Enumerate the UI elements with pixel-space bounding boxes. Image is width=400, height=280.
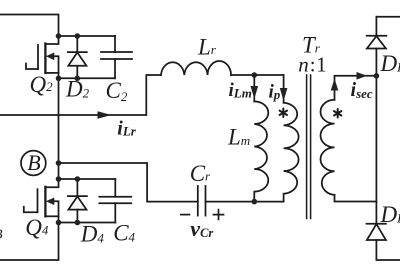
svg-text:Q4: Q4: [25, 215, 49, 240]
wire Q4 source rail: [59, 222, 116, 224]
node B junction: [56, 160, 62, 166]
svg-text:C4: C4: [113, 221, 135, 246]
capacitor Cr: [197, 186, 199, 216]
diode D2: [76, 36, 78, 52]
svg-text:n:1: n:1: [298, 53, 326, 77]
arrow isec right: [357, 72, 368, 80]
label plus: [213, 209, 225, 221]
wire Q4 drain branch: [58, 163, 60, 179]
wire top-left input rail: [0, 15, 59, 37]
wire node B to Cr: [59, 163, 198, 202]
node Q2 drain: [56, 33, 62, 39]
arrow Q4 body: [46, 198, 54, 206]
node D2 bottom: [75, 76, 81, 82]
transistor Q2: [46, 36, 59, 44]
capacitor C4: [114, 179, 116, 197]
wire Cr to primary bottom: [206, 201, 284, 203]
wire secondary bottom: [335, 195, 377, 202]
wire Q4 source to bottom rail: [0, 223, 59, 261]
svg-text:DR: DR: [380, 51, 400, 76]
transformer primary winding: [284, 103, 299, 202]
wire Q2 source rail: [59, 77, 116, 79]
arrow isec up: [331, 79, 339, 91]
node D4 top: [75, 176, 81, 182]
wire iLm branch: [253, 75, 255, 101]
wire DR2 to bottom-right rail: [376, 240, 400, 260]
arrow ip: [280, 88, 288, 101]
svg-text:isec: isec: [351, 79, 373, 101]
transformer core: [306, 75, 308, 219]
svg-text:vCr: vCr: [190, 216, 213, 241]
svg-text:D4: D4: [80, 222, 105, 247]
wire Lr to primary node: [231, 74, 284, 76]
svg-text:Q2: Q2: [30, 72, 54, 97]
transformer secondary winding: [320, 100, 334, 195]
arrow Q2 body: [46, 53, 54, 61]
wire secondary top / isec: [335, 76, 377, 100]
node Lm top junction: [252, 72, 258, 78]
node Q2 source: [56, 76, 62, 82]
diode D4: [76, 179, 78, 196]
capacitor C2: [114, 36, 116, 52]
diode DR2: [367, 223, 386, 225]
svg-text:ip: ip: [269, 81, 281, 102]
inductor Lm: [254, 101, 268, 201]
node rectifier junction: [374, 73, 380, 79]
wire iLr from bridge midpoint to Lr: [0, 75, 161, 115]
node Q4 drain: [56, 176, 62, 182]
wire top-right output rail: [376, 16, 400, 18]
wire Q4 drain rail: [59, 178, 116, 180]
svg-text:iLr: iLr: [117, 118, 137, 140]
wire right vertical DR1 to DR2: [375, 76, 377, 224]
transistor Q4: [46, 179, 59, 187]
arrow iLm: [251, 86, 259, 99]
wire Q2 drain rail: [59, 35, 116, 37]
arrow iLr: [98, 111, 112, 119]
diode DR1: [375, 17, 377, 36]
svg-text:B: B: [0, 228, 3, 243]
node D4 bottom: [75, 220, 81, 226]
inductor Lr: [161, 61, 231, 75]
node Lm bottom junction: [252, 199, 258, 205]
svg-text:C2: C2: [106, 78, 128, 104]
node Q4 source: [56, 220, 62, 226]
label minus: [180, 214, 190, 216]
wire ip branch: [283, 75, 285, 103]
svg-text:Lm: Lm: [227, 125, 250, 150]
polarity dot secondary: [334, 109, 341, 118]
wire Q2 source to node B: [58, 78, 60, 163]
node D2 top: [75, 33, 81, 39]
svg-text:B: B: [27, 150, 40, 175]
svg-text:Lr: Lr: [197, 34, 217, 59]
svg-text:iLm: iLm: [229, 80, 252, 101]
node B circle label: [21, 151, 46, 176]
svg-text:D2: D2: [65, 76, 90, 101]
polarity dot primary: [280, 109, 287, 118]
svg-text:Cr: Cr: [190, 161, 211, 186]
svg-text:DR: DR: [380, 202, 400, 227]
